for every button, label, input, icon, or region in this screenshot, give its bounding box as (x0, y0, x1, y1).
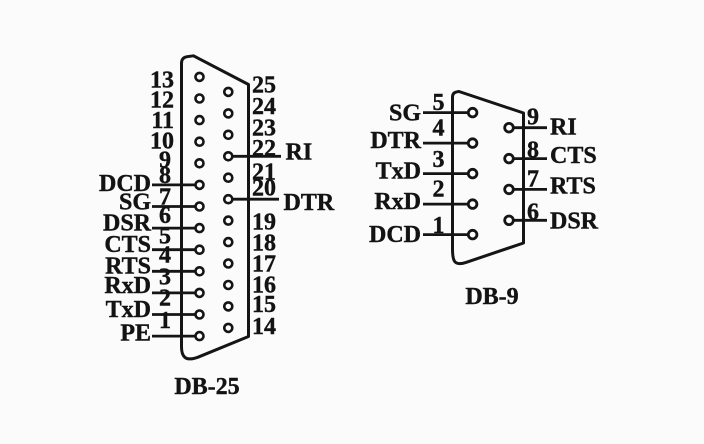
wire pin 9 to RI (509, 126, 547, 129)
pins 9..6 right column of DB-9 (505, 123, 514, 224)
pins 25..14 right column of DB-25 (224, 88, 232, 332)
wire DSR to pin 6 (152, 227, 200, 230)
pin 11 (196, 116, 204, 124)
pin 3 (196, 289, 204, 297)
svg-text:5: 5 (433, 90, 445, 116)
wire RTS to pin 4 (152, 270, 200, 273)
pin 7 (505, 185, 514, 194)
svg-text:9: 9 (527, 105, 539, 131)
svg-text:DB-25: DB-25 (174, 374, 239, 400)
pin 7 (196, 203, 204, 211)
pin 9 (505, 123, 514, 132)
svg-text:22: 22 (252, 136, 276, 162)
svg-text:RxD: RxD (374, 189, 421, 215)
pin 23 (224, 131, 232, 139)
pin 12 (196, 95, 204, 103)
pin 9 (196, 159, 204, 167)
pin 24 (224, 109, 232, 117)
svg-text:1: 1 (433, 213, 445, 239)
wire DCD to pin 1 (423, 233, 473, 236)
svg-text:7: 7 (527, 167, 539, 193)
svg-text:CTS: CTS (550, 143, 597, 169)
wire DTR to pin 4 (423, 142, 473, 145)
svg-text:RTS: RTS (550, 174, 596, 200)
wire SG to pin 7 (152, 205, 200, 208)
svg-text:20: 20 (252, 176, 276, 202)
pin 1 (468, 230, 477, 239)
svg-text:PE: PE (120, 321, 151, 347)
pin 1 (196, 332, 204, 340)
pin 4 (196, 267, 204, 275)
pin 25 (224, 88, 232, 96)
svg-text:DCD: DCD (369, 222, 421, 248)
pins 13..1 left column of DB-25 (196, 73, 204, 340)
svg-text:8: 8 (527, 138, 539, 164)
svg-text:DTR: DTR (370, 128, 421, 154)
pin 16 (224, 281, 232, 289)
pin 22 (224, 152, 232, 160)
svg-text:14: 14 (252, 314, 276, 340)
pin 15 (224, 302, 232, 310)
wire pin 6 to DSR (509, 219, 547, 222)
connector J1 DB-25 outline (182, 56, 249, 359)
svg-text:RxD: RxD (104, 273, 151, 299)
svg-text:DTR: DTR (284, 190, 335, 216)
wire PE to pin 1 (152, 335, 200, 338)
svg-text:SG: SG (389, 100, 421, 126)
svg-text:RI: RI (550, 115, 577, 141)
svg-text:DSR: DSR (550, 209, 599, 235)
svg-text:TxD: TxD (106, 297, 151, 323)
wire RxD to pin 3 (152, 291, 200, 294)
wire RxD to pin 2 (423, 203, 473, 206)
pin 5 (468, 108, 477, 117)
pin 4 (468, 139, 477, 148)
wire pin 22 to RI (228, 155, 281, 158)
svg-text:3: 3 (433, 147, 445, 173)
wire DCD to pin 8 (152, 183, 200, 186)
pin 5 (196, 246, 204, 254)
svg-text:2: 2 (433, 177, 445, 203)
wire TxD to pin 3 (423, 172, 473, 175)
pin 17 (224, 260, 232, 268)
pin 6 (505, 216, 514, 225)
wire pin 20 to DTR (228, 198, 279, 201)
wire SG to pin 5 (423, 111, 473, 114)
svg-text:1: 1 (159, 308, 171, 334)
svg-text:TxD: TxD (376, 158, 421, 184)
svg-text:RI: RI (286, 140, 313, 166)
wire CTS to pin 5 (152, 248, 200, 251)
connector J2 DB-9 outline (453, 92, 524, 264)
pin 13 (196, 73, 204, 81)
pin 2 (468, 200, 477, 209)
pin 18 (224, 238, 232, 246)
svg-text:DB-9: DB-9 (465, 284, 518, 310)
svg-text:4: 4 (433, 116, 445, 142)
pin 14 (224, 324, 232, 332)
pin 21 (224, 174, 232, 182)
svg-text:6: 6 (527, 200, 539, 226)
pin 3 (468, 169, 477, 178)
pin 10 (196, 138, 204, 146)
wire pin 7 to RTS (509, 188, 547, 191)
pins 5..1 left column of DB-9 (468, 108, 477, 239)
wire pin 8 to CTS (509, 157, 547, 160)
pin 8 (196, 181, 204, 189)
pin 6 (196, 224, 204, 232)
pin 19 (224, 217, 232, 225)
pin 20 (224, 195, 232, 203)
pin 8 (505, 154, 514, 163)
wire TxD to pin 2 (152, 313, 200, 316)
pin 2 (196, 311, 204, 319)
